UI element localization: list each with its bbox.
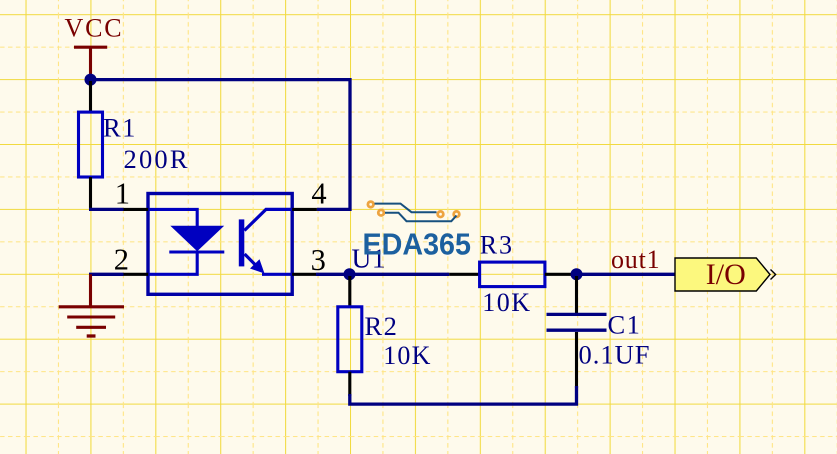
svg-text:2: 2 (114, 243, 129, 277)
wire node A to R3 (350, 273, 450, 276)
U1 LED anode lead (149, 209, 197, 226)
U1 phototransistor base bar (239, 219, 245, 266)
U1 pin 3 (292, 273, 316, 276)
logo pad A (368, 202, 374, 208)
U1 phototransistor emitter (245, 254, 257, 266)
svg-text:1: 1 (115, 177, 130, 211)
svg-text:R2: R2 (365, 311, 399, 341)
wire VCC node to U1 pin4 (91, 80, 351, 210)
wire U1 pin3 to node A (316, 273, 350, 276)
logo pad B (378, 210, 384, 216)
wire R1 to U1 pin1 (89, 208, 124, 211)
logo trace 2 (385, 213, 457, 222)
svg-text:I/O: I/O (706, 258, 746, 291)
port I/O (675, 258, 776, 291)
svg-text:0.1UF: 0.1UF (579, 340, 651, 370)
U1 LED cathode bar (169, 250, 224, 253)
junction node B (571, 268, 583, 280)
logo pad D (454, 211, 460, 217)
U1 pin 4 (292, 208, 317, 211)
U1 LED triangle (170, 226, 224, 252)
junction node A (344, 268, 356, 280)
wire bottom R2 to C1 (350, 386, 577, 404)
svg-text:4: 4 (311, 177, 326, 211)
svg-text:3: 3 (311, 243, 326, 277)
svg-text:R3: R3 (480, 230, 514, 259)
svg-text:R1: R1 (103, 113, 137, 143)
logo pad C (438, 211, 444, 217)
svg-text:C1: C1 (608, 309, 642, 339)
svg-text:EDA365: EDA365 (363, 227, 472, 262)
svg-text:10K: 10K (383, 341, 431, 370)
capacitor C1 (547, 276, 607, 388)
junction VCC node (85, 74, 97, 86)
svg-text:out1: out1 (611, 245, 660, 274)
U1 phototransistor collector (244, 209, 291, 230)
U1 pin 1 (124, 208, 149, 211)
resistor R3 (449, 262, 576, 287)
svg-text:10K: 10K (482, 288, 531, 317)
optocoupler U1 box (148, 194, 292, 295)
svg-text:200R: 200R (124, 144, 190, 174)
svg-text:VCC: VCC (65, 13, 124, 42)
ground (59, 274, 124, 336)
logo trace 1 (375, 204, 437, 213)
resistor R1 (79, 81, 103, 209)
power port VCC (65, 13, 124, 75)
wire U1 pin2 to GND (89, 273, 124, 276)
U1 pin 2 (124, 273, 149, 276)
resistor R2 (338, 276, 362, 396)
wire node B to port I/O (577, 273, 677, 276)
U1 LED cathode lead (149, 253, 197, 275)
